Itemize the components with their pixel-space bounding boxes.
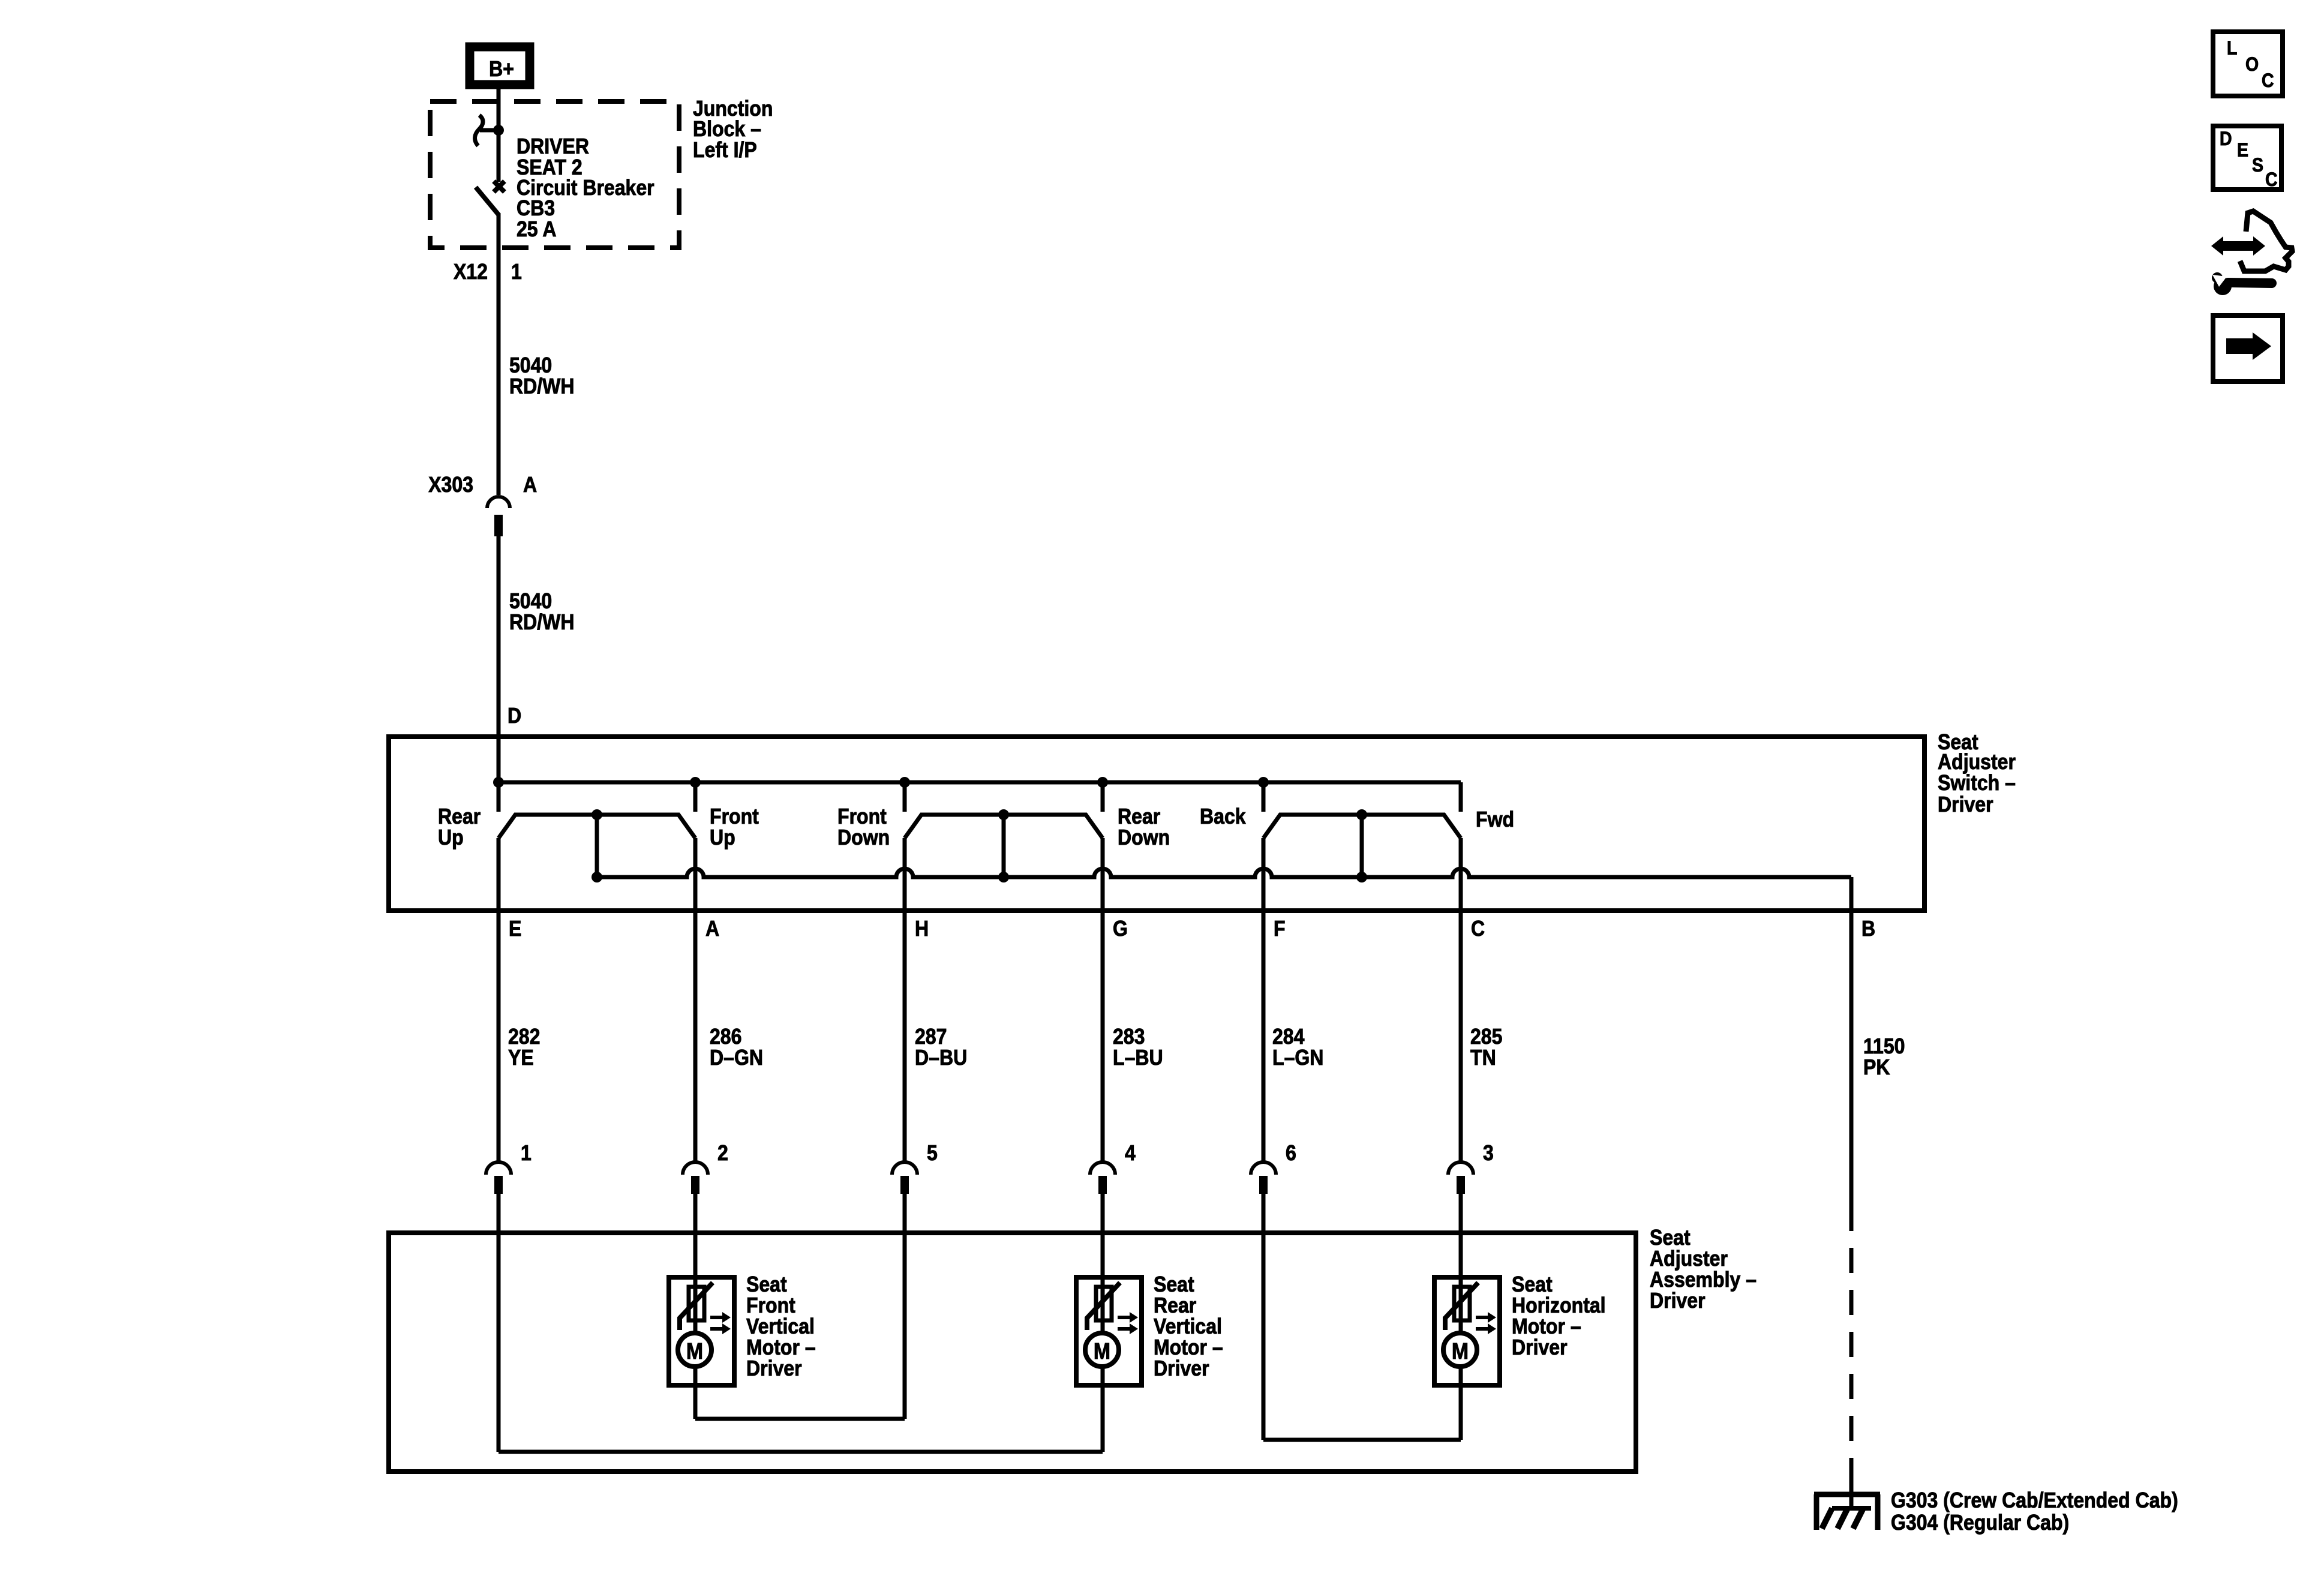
svg-text:PK: PK	[1863, 1055, 1890, 1079]
svg-text:O: O	[2245, 55, 2259, 76]
svg-text:4: 4	[1125, 1141, 1136, 1165]
svg-text:G: G	[1113, 917, 1128, 941]
svg-text:M: M	[1094, 1338, 1110, 1364]
svg-text:Back: Back	[1200, 804, 1246, 828]
svg-text:D: D	[2220, 129, 2232, 150]
svg-text:A: A	[523, 473, 537, 497]
svg-text:D–GN: D–GN	[710, 1046, 763, 1070]
svg-text:X303: X303	[428, 473, 473, 497]
svg-text:L–GN: L–GN	[1272, 1046, 1323, 1070]
svg-text:1: 1	[521, 1141, 532, 1165]
svg-text:F: F	[1274, 917, 1286, 941]
svg-text:L–BU: L–BU	[1113, 1046, 1163, 1070]
svg-text:6: 6	[1286, 1141, 1296, 1165]
svg-text:B+: B+	[489, 57, 514, 81]
svg-text:S: S	[2252, 155, 2263, 176]
svg-text:G303 (Crew Cab/Extended Cab): G303 (Crew Cab/Extended Cab)	[1891, 1488, 2178, 1512]
svg-text:3: 3	[1483, 1141, 1494, 1165]
svg-text:A: A	[705, 917, 719, 941]
svg-text:Up: Up	[710, 825, 735, 849]
svg-text:RD/WH: RD/WH	[509, 610, 575, 634]
svg-text:M: M	[686, 1338, 703, 1364]
svg-text:Left I/P: Left I/P	[693, 138, 757, 162]
svg-text:Switch –: Switch –	[1938, 771, 2016, 795]
svg-text:YE: YE	[508, 1046, 534, 1070]
svg-text:Down: Down	[837, 825, 890, 849]
svg-text:L: L	[2227, 38, 2237, 59]
svg-text:Down: Down	[1118, 825, 1170, 849]
svg-text:Driver: Driver	[1512, 1335, 1568, 1359]
svg-text:1: 1	[511, 260, 522, 284]
svg-text:Driver: Driver	[1938, 792, 1993, 816]
svg-text:Up: Up	[438, 825, 464, 849]
svg-text:M: M	[1452, 1338, 1469, 1364]
svg-text:D: D	[508, 704, 521, 728]
svg-text:C: C	[2262, 71, 2274, 92]
svg-text:G304 (Regular Cab): G304 (Regular Cab)	[1891, 1511, 2069, 1535]
svg-text:E: E	[2237, 140, 2248, 161]
svg-text:5: 5	[927, 1141, 938, 1165]
svg-text:H: H	[915, 917, 929, 941]
svg-text:TN: TN	[1470, 1046, 1496, 1070]
svg-text:Driver: Driver	[1154, 1356, 1209, 1380]
svg-text:Driver: Driver	[1650, 1289, 1706, 1313]
svg-text:RD/WH: RD/WH	[509, 374, 575, 398]
svg-text:C: C	[1471, 917, 1485, 941]
svg-text:B: B	[1861, 917, 1875, 941]
svg-text:E: E	[509, 917, 521, 941]
svg-text:25 A: 25 A	[517, 217, 556, 241]
svg-text:Driver: Driver	[746, 1356, 802, 1380]
svg-text:D–BU: D–BU	[915, 1046, 967, 1070]
svg-text:Fwd: Fwd	[1476, 807, 1514, 831]
svg-text:2: 2	[717, 1141, 728, 1165]
svg-text:C: C	[2265, 170, 2278, 191]
svg-text:X12: X12	[454, 260, 488, 284]
